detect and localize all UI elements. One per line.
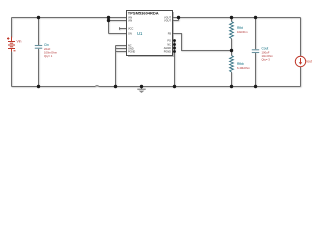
wire top rail left (Vin to U1 VIN pin1) [12, 17, 127, 19]
resistor Rfbb [230, 56, 234, 73]
wire FB pin to divider midpoint [173, 34, 232, 51]
wire Cout bottom lead [255, 53, 257, 87]
svg-text:FB: FB [168, 33, 172, 36]
wire AGND pin stub [173, 47, 175, 49]
svg-text:6.49kOhm: 6.49kOhm [237, 66, 251, 70]
svg-text:VIN: VIN [128, 20, 132, 23]
wire Rfbt bottom lead to FB node [231, 39, 233, 51]
wire to U1 ON pin [109, 33, 127, 35]
node junction dots [37, 16, 257, 88]
wire VOUT pin1 stub [173, 17, 179, 19]
wire hop on ground rail [95, 85, 99, 88]
wire left GND pins vertical to rail [115, 46, 117, 87]
svg-text:ON: ON [128, 33, 132, 36]
wire to U1 VIN pin2 [109, 20, 127, 22]
wire left vertical upper (Vin+ lead) [11, 18, 13, 38]
wire Rfbb top lead [231, 51, 233, 56]
svg-text:Qty= 3: Qty= 3 [262, 57, 271, 61]
ground symbol [137, 87, 145, 94]
op-amp U1 body (module TPSM53604RDA) [127, 11, 173, 56]
wire bottom ground rail [12, 86, 301, 88]
wire VOUT pins junction vertical [178, 18, 180, 21]
wire Rfbt top lead [231, 18, 233, 22]
wire right NC pin stub [173, 44, 175, 46]
svg-text:PGND: PGND [164, 51, 171, 54]
op-amp U1 body shadow [128, 12, 174, 57]
wire Cout top lead [255, 18, 257, 50]
wire VOUT pin2 stub [173, 20, 179, 22]
wire Rfbb bottom lead [231, 72, 233, 87]
wire PG pin stub [173, 40, 175, 42]
capacitor Cout [252, 50, 259, 53]
wire top rail right (VOUT node) [179, 17, 301, 19]
svg-text:U1: U1 [137, 31, 143, 36]
wire right PGND pin stub [173, 51, 175, 53]
wire right vertical lower (Iout to rail) [300, 67, 302, 87]
current source Iout [295, 56, 305, 66]
wire right GND pins vertical to rail [174, 41, 176, 87]
svg-text:VOUT: VOUT [164, 20, 171, 23]
svg-text:10kOhm: 10kOhm [237, 30, 248, 34]
wire U1 left NC pin stub [116, 45, 127, 47]
wire VCC stub [120, 27, 127, 30]
svg-text:Qty= 1: Qty= 1 [44, 54, 53, 58]
wire left vertical lower (Vin- lead) [11, 52, 13, 87]
resistor Rfbt [230, 22, 234, 39]
wire U1 left GND pin stub [116, 48, 127, 50]
svg-text:Vin: Vin [17, 40, 22, 44]
capacitor Cin [35, 46, 42, 49]
wire Cin bottom lead [38, 49, 40, 87]
voltage source Vin [7, 37, 16, 52]
svg-text:PGND: PGND [128, 51, 135, 54]
svg-text:TPSM53604RDA: TPSM53604RDA [128, 11, 159, 16]
wire Cin top lead [38, 18, 40, 46]
wire right vertical upper (to Iout) [300, 18, 302, 57]
wire U1 left PGND pin stub [116, 51, 127, 53]
svg-text:PG: PG [167, 40, 171, 43]
wire VIN pins junction vertical [108, 18, 110, 34]
svg-text:VCC: VCC [128, 28, 133, 31]
svg-text:Iout: Iout [307, 60, 313, 64]
